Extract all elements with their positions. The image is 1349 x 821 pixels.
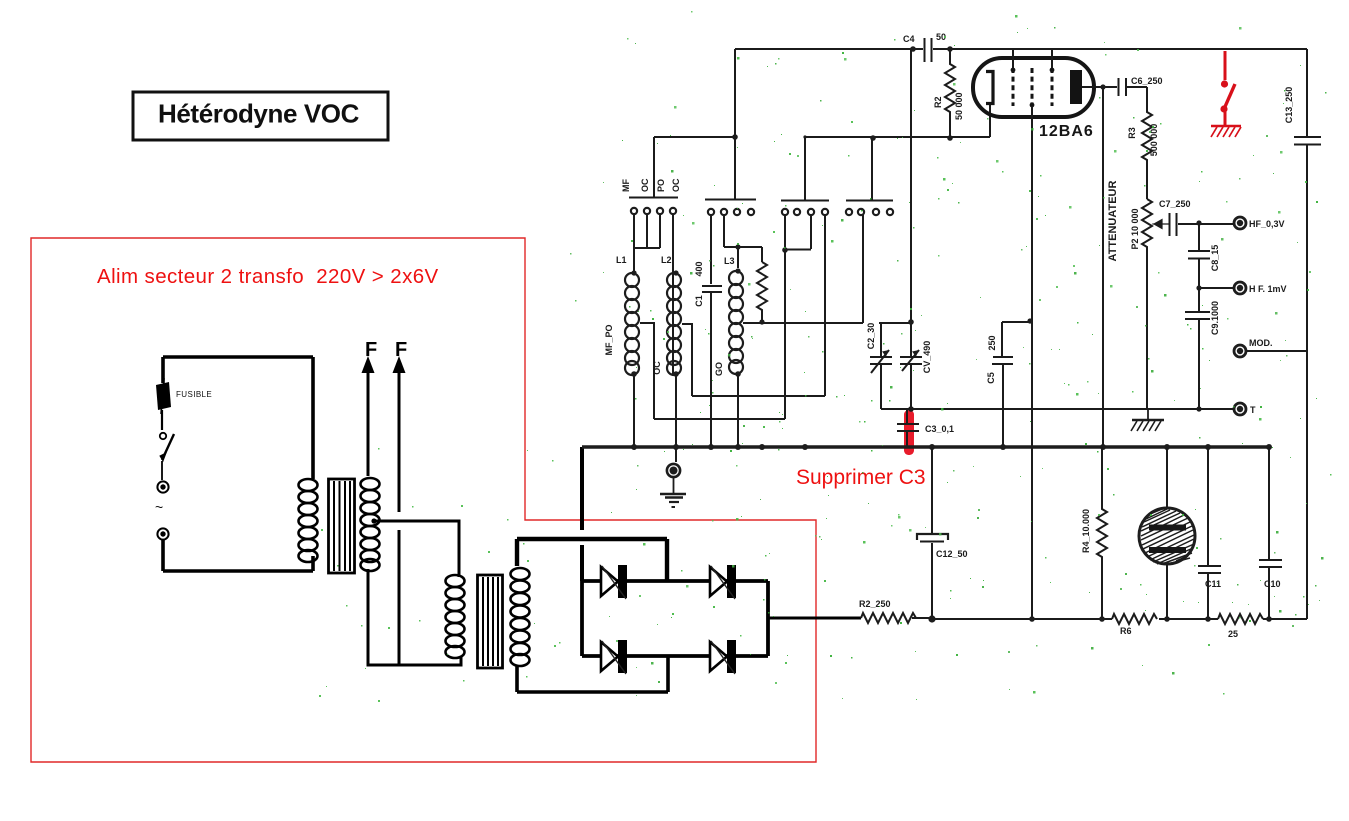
- lamp stabilizer: [1139, 447, 1195, 619]
- svg-text:L1: L1: [616, 255, 627, 265]
- resistor R3 500000: [1127, 87, 1159, 199]
- gang section 3 stator bar: [781, 137, 829, 201]
- wire L1 tap: [640, 323, 654, 419]
- node bus L3: [735, 444, 741, 450]
- scan noise speckles clustered: [622, 45, 1318, 659]
- coil L1: [625, 273, 639, 375]
- svg-text:C7_250: C7_250: [1159, 199, 1191, 209]
- wire C6 to R3: [1126, 86, 1147, 88]
- wire gang1-1 to L1: [633, 214, 635, 273]
- wire fuse to switch: [161, 410, 163, 430]
- terminal HF 0,3V: [1234, 217, 1285, 229]
- node bus L1: [631, 444, 637, 450]
- gang section 4 stator bar: [846, 138, 893, 201]
- node bus x762: [759, 444, 765, 450]
- svg-text:Alim secteur 2 transfo 220V >: Alim secteur 2 transfo 220V > 2x6V: [97, 265, 439, 288]
- terminal phase: [157, 481, 168, 492]
- node bottom R4: [1099, 616, 1105, 622]
- main HT bus: [582, 445, 1271, 448]
- svg-text:MF: MF: [621, 179, 631, 192]
- capacitor C7 250: [1159, 199, 1191, 236]
- svg-text:H F. 1mV: H F. 1mV: [1249, 284, 1287, 294]
- node bus plate: [1100, 444, 1106, 450]
- terminal T: [1234, 403, 1256, 415]
- wire grid1 riser: [1012, 49, 1014, 70]
- wire to HF1mV terminal: [1199, 287, 1234, 289]
- tube 12BA6 envelope: [973, 58, 1094, 117]
- svg-text:C2_30: C2_30: [866, 323, 876, 350]
- wire gang2-1 to C1: [710, 215, 712, 284]
- resistor padding oscillator: [757, 262, 767, 322]
- capacitor C9 1000: [1185, 288, 1220, 409]
- node bottom C10: [1266, 616, 1272, 622]
- node bottom lamp: [1164, 616, 1170, 622]
- resistor R6: [1112, 614, 1157, 636]
- node C4 left: [910, 46, 916, 52]
- tube grid g2: [1031, 68, 1034, 106]
- node bottom grid2: [1029, 616, 1035, 622]
- gang section 4 contacts: [846, 209, 893, 215]
- node bottom C12: [928, 615, 935, 622]
- tube plate: [1070, 70, 1082, 104]
- transformer T2 secondary winding: [511, 568, 530, 666]
- wire plate down to bus: [1102, 87, 1104, 447]
- ground under L2: [660, 464, 686, 507]
- wire oscillator rail: [881, 408, 1234, 410]
- svg-text:50 000: 50 000: [954, 92, 964, 120]
- wire gang1 tie bar: [634, 214, 660, 248]
- node bus C11: [1205, 444, 1211, 450]
- transformer T1 core: [329, 479, 355, 573]
- capacitor C8 15: [1188, 223, 1220, 288]
- resistor 25: [1218, 614, 1263, 639]
- terminal HF 1mV: [1234, 282, 1287, 294]
- wire HT from bus down to bridge: [580, 447, 584, 581]
- svg-text:P2 10 000: P2 10 000: [1130, 208, 1140, 249]
- capacitor C1 400: [694, 261, 722, 306]
- tube grid g1: [1012, 68, 1015, 106]
- node L1 bottom: [631, 371, 637, 377]
- node osc top: [908, 319, 914, 325]
- wire bridge output: [768, 617, 861, 620]
- wire neutral down: [161, 540, 165, 571]
- svg-text:MF_PO: MF_PO: [604, 324, 614, 355]
- wire gang3-4 to H1: [824, 215, 826, 396]
- wire L3 to bus: [737, 374, 739, 447]
- transformer T1 secondary winding: [361, 478, 380, 571]
- svg-text:C8_15: C8_15: [1210, 245, 1220, 272]
- transformer T1 primary winding: [299, 479, 318, 562]
- svg-text:R2: R2: [933, 96, 943, 108]
- svg-text:PO: PO: [656, 179, 666, 192]
- svg-text:R3: R3: [1127, 127, 1137, 139]
- node plate branch: [1100, 84, 1105, 89]
- gang section 2 contacts: [708, 209, 754, 215]
- svg-text:CV_490: CV_490: [922, 341, 932, 374]
- svg-text:MOD.: MOD.: [1249, 338, 1273, 348]
- svg-text:F: F: [395, 339, 407, 361]
- node bus C1: [708, 444, 714, 450]
- gang section 2 stator bar: [705, 49, 756, 200]
- node branch L3: [735, 244, 740, 249]
- node C7 out: [1196, 220, 1201, 225]
- red annotation border (Alim secteur region): [31, 238, 816, 762]
- capacitor C10: [1259, 447, 1282, 619]
- wire H1: [692, 395, 825, 397]
- svg-text:C9.1000: C9.1000: [1210, 301, 1220, 335]
- coil L3: [729, 271, 743, 374]
- node bus C10: [1266, 444, 1272, 450]
- wire L3 tap rail: [743, 322, 825, 324]
- wire center tap to T2: [374, 521, 459, 577]
- svg-text:L3: L3: [724, 256, 735, 266]
- capacitor C11: [1198, 447, 1221, 619]
- resistor R4 10000: [1081, 447, 1107, 619]
- svg-text:OC: OC: [671, 178, 681, 192]
- wire L2 to ground: [675, 374, 677, 462]
- svg-text:L2: L2: [661, 255, 672, 265]
- svg-text:OC: OC: [652, 361, 662, 375]
- red switch to ground (top right): [1211, 51, 1241, 137]
- node gang3 junction: [782, 247, 788, 253]
- wire filament F1: [362, 356, 375, 476]
- node L2 top: [673, 270, 678, 275]
- wire gang3 ties: [785, 215, 811, 250]
- transformer T2 primary winding: [446, 575, 465, 658]
- node bus L2gnd: [673, 444, 679, 450]
- fuse FUSIBLE: [156, 378, 212, 414]
- wire L1 to bus: [633, 374, 635, 447]
- node L3 top: [735, 268, 740, 273]
- gang section 3 contacts: [782, 209, 828, 215]
- svg-text:FUSIBLE: FUSIBLE: [176, 390, 212, 399]
- svg-text:Supprimer C3: Supprimer C3: [796, 466, 926, 489]
- wire T1 secondary bottom: [368, 569, 461, 665]
- svg-text:25: 25: [1228, 629, 1238, 639]
- svg-text:C10: C10: [1264, 579, 1281, 589]
- svg-text:R6: R6: [1120, 626, 1132, 636]
- switch contact circle: [160, 433, 166, 439]
- svg-text:R4_10.000: R4_10.000: [1081, 509, 1091, 553]
- wire MOD to right rail: [1246, 350, 1307, 352]
- wire primary bottom: [311, 556, 315, 571]
- node C9 bottom: [1196, 406, 1201, 411]
- node L2 bottom: [673, 371, 679, 377]
- node osc bottom: [908, 406, 914, 412]
- svg-text:12BA6: 12BA6: [1039, 123, 1094, 140]
- capacitor C13 250 right rail: [1284, 49, 1321, 619]
- potentiometer P2 10000 ATTENUATEUR: [1107, 181, 1169, 409]
- wire cathode riser: [989, 103, 991, 137]
- resistor R2_250: [859, 599, 916, 623]
- node L1 top: [631, 270, 636, 275]
- bridge rectifier frame: [582, 548, 768, 656]
- svg-text:C11: C11: [1205, 579, 1221, 589]
- node R2 bottom: [947, 135, 953, 141]
- wire gang4-2 to oscillator: [825, 215, 863, 323]
- coil L2: [667, 273, 681, 375]
- wire mains top: [163, 355, 313, 359]
- svg-text:OC: OC: [640, 178, 650, 192]
- transformer T2 core: [478, 575, 503, 668]
- svg-text:500 000: 500 000: [1149, 124, 1159, 157]
- capacitor C12 50: [917, 447, 968, 619]
- node bottom C11: [1205, 616, 1211, 622]
- svg-text:C3_0,1: C3_0,1: [925, 424, 954, 434]
- node R2 top: [947, 46, 953, 52]
- svg-text:F: F: [365, 339, 377, 361]
- gang section 1 contacts: [631, 208, 676, 214]
- wire filament F2: [393, 356, 406, 665]
- node C8 out: [1196, 285, 1201, 290]
- tube grid g3: [1051, 68, 1054, 106]
- svg-text:C5: C5: [986, 372, 996, 384]
- diode D1: [601, 565, 627, 599]
- svg-text:GO: GO: [714, 362, 724, 376]
- node L3 bottom: [735, 371, 741, 377]
- diode D3: [601, 640, 627, 674]
- switch blade: [160, 434, 174, 480]
- wire plate out: [1082, 86, 1117, 88]
- diode D2: [710, 565, 736, 599]
- wire B+ top rail: [735, 48, 1307, 50]
- svg-text:C4: C4: [903, 34, 915, 44]
- node gang4 rail: [870, 135, 876, 141]
- wire primary right: [311, 357, 315, 479]
- wire grid2 down: [1031, 106, 1033, 619]
- wire C1 to bus: [710, 293, 712, 447]
- node bus lamp: [1164, 444, 1170, 450]
- wire mains bottom: [163, 569, 313, 573]
- svg-text:C6_250: C6_250: [1131, 76, 1163, 86]
- node gang3 rail corner: [803, 135, 806, 138]
- svg-text:T: T: [1250, 405, 1256, 415]
- gang section 1 stator bar: [621, 137, 681, 198]
- capacitor C5 250: [986, 322, 1030, 447]
- node resistor bottom: [759, 319, 764, 324]
- capacitor C6 250: [1119, 76, 1163, 96]
- red highlight bar over C3: [904, 410, 914, 455]
- svg-text:C13_250: C13_250: [1284, 87, 1294, 124]
- wire fuse feed: [161, 357, 165, 383]
- ground on oscillator rail: [1131, 409, 1164, 431]
- variable capacitor C2 30: [866, 323, 892, 409]
- svg-text:250: 250: [987, 335, 997, 350]
- capacitor C3 0,1: [897, 409, 954, 447]
- terminal neutral: [157, 528, 168, 539]
- node C5 grid: [1027, 318, 1032, 323]
- wire oscillator column: [910, 50, 912, 356]
- wire osc top link: [879, 322, 911, 324]
- svg-text:HF_0,3V: HF_0,3V: [1249, 219, 1285, 229]
- wire cathode rail: [654, 136, 990, 138]
- terminal MOD: [1234, 338, 1273, 357]
- node bus C12: [929, 444, 935, 450]
- variable capacitor CV 490: [900, 341, 932, 409]
- wire C7 to HF terminal: [1178, 223, 1234, 225]
- node gang2 rail: [732, 134, 738, 140]
- diode D4: [710, 640, 736, 674]
- svg-text:C1: C1: [694, 295, 704, 307]
- wire gang2-2 branch: [724, 215, 762, 268]
- wire gang1-4 to L2 foot: [672, 214, 674, 374]
- tube cathode: [986, 72, 993, 104]
- resistor R2 50000: [933, 49, 964, 138]
- svg-text:R2_250: R2_250: [859, 599, 891, 609]
- svg-text:ATTENUATEUR: ATTENUATEUR: [1107, 181, 1119, 262]
- node bus x805: [802, 444, 808, 450]
- scan noise speckles: [319, 11, 1332, 702]
- bottom return bus: [932, 618, 1307, 620]
- node bus C5: [1000, 444, 1006, 450]
- svg-text:400: 400: [694, 261, 704, 276]
- title box Heterodyne VOC: [133, 92, 388, 140]
- svg-text:C12_50: C12_50: [936, 549, 968, 559]
- svg-text:Hétérodyne VOC: Hétérodyne VOC: [158, 99, 360, 129]
- wire T2 secondary top to bridge: [517, 539, 667, 581]
- wire R2 to C12 node: [912, 617, 932, 619]
- wire grid3 riser: [1051, 49, 1053, 70]
- node tap start: [371, 518, 376, 523]
- wire H2: [654, 418, 785, 420]
- wire T2 secondary bottom to bridge: [517, 656, 668, 692]
- wire L2 tap: [682, 324, 692, 396]
- capacitor C4: [903, 32, 946, 62]
- svg-text:~: ~: [155, 499, 163, 515]
- wire gang3 to H2: [784, 250, 786, 419]
